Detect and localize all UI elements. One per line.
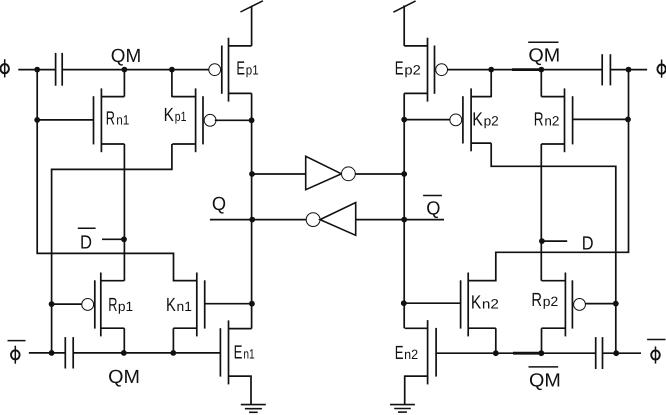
junction Kn1 gate on Q rail <box>249 301 255 307</box>
wire Kp2 source path down-right to right coupling rail <box>491 143 616 353</box>
wire Kp2 drain riser <box>490 70 492 98</box>
wire Rn2 source rail down to Rp2 drain <box>540 144 542 281</box>
junction U2 output on Q rail <box>249 217 255 223</box>
capacitor (bottom right, on phi-bar line) <box>596 337 603 369</box>
node Q-bar <box>423 196 442 220</box>
label Kp1 <box>164 105 187 126</box>
transistor Ep1 (PMOS, top) <box>209 38 252 102</box>
label Rn2 <box>534 110 560 131</box>
node phi-bar (clock input, bottom left) <box>8 341 26 364</box>
node QM (top left) <box>122 67 128 73</box>
wire En2 gate to capacitor C-right-bottom <box>436 352 596 354</box>
transistor Kp1 (PMOS) <box>172 88 216 152</box>
wire U1 output to Q-bar rail <box>355 173 404 175</box>
junction Rp2 source on phi-bar line <box>538 350 544 356</box>
svg-text:QM: QM <box>529 371 561 392</box>
wire D-bar stub <box>102 238 124 240</box>
junction on phi line (left rail tap) <box>34 67 40 73</box>
wire capacitor to phi-bar (right) <box>603 352 642 354</box>
wire Rn1 source rail down to Rp1 drain <box>123 144 125 281</box>
junction Kn1 source on phi-bar line <box>170 350 176 356</box>
label D <box>582 233 594 254</box>
label QM-bar (top right) <box>528 42 560 66</box>
wire Kp1 drain riser <box>171 70 173 98</box>
label Kn1 <box>166 295 192 316</box>
transistor Ep2 (PMOS, top) <box>404 38 447 102</box>
svg-text:E: E <box>236 58 245 79</box>
label Ep2 <box>395 59 421 80</box>
wire U2 input from Q-bar rail <box>356 219 444 221</box>
svg-text:R: R <box>534 110 544 131</box>
wire D stub <box>542 240 567 242</box>
wire Kp1 gate to Q rail <box>215 119 252 121</box>
junction Rn1 gate tap on phi rail <box>34 117 40 123</box>
Q rail (Ep1 drain down to En1 drain) <box>251 93 253 328</box>
junction Kp1 drain tap <box>169 67 175 73</box>
wire Q to inverter U1 input <box>252 173 306 175</box>
label QM (bottom left) <box>108 367 140 388</box>
wire Kn2 source drop to phi-bar line <box>495 328 497 353</box>
svg-text:p2: p2 <box>543 294 558 309</box>
ground (right) <box>390 405 415 413</box>
svg-text:E: E <box>395 343 404 364</box>
svg-text:E: E <box>395 59 404 80</box>
junction Rn2 gate tap on phi rail <box>625 117 631 123</box>
wire Rp2 gate to right coupling rail <box>586 303 616 305</box>
node phi (clock input, top right) <box>657 60 665 78</box>
svg-text:n2: n2 <box>404 347 418 362</box>
svg-text:QM: QM <box>528 46 560 67</box>
wire QM node down to Rn1 drain <box>123 70 125 97</box>
transistor Kn1 (NMOS) <box>173 273 204 337</box>
label Rn1 <box>106 109 130 130</box>
transistor En1 (NMOS, bottom) <box>220 320 251 384</box>
svg-text:K: K <box>164 105 174 126</box>
svg-text:R: R <box>106 109 115 130</box>
label Rp1 <box>108 295 133 316</box>
junction Kn2 gate on Q-bar rail <box>401 300 407 306</box>
svg-text:p1: p1 <box>175 109 187 124</box>
transistor Rn1 (NMOS) <box>94 88 125 152</box>
junction coupling rail on phi-bar line <box>49 350 55 356</box>
svg-text:p2: p2 <box>484 114 499 129</box>
wire Q stub under label to U2 output bubble <box>210 219 306 221</box>
junction right phi rail tap <box>626 67 632 73</box>
wire Ep2 bubble to capacitor C-right-top <box>447 69 602 71</box>
transistor Kn2 (NMOS) <box>461 273 496 337</box>
junction right coupling rail on phi-bar line <box>613 350 619 356</box>
wire capacitor to En1 gate <box>73 352 220 354</box>
wire Kn2 gate from Q-bar rail <box>404 302 460 304</box>
node phi-bar (clock input, bottom right) <box>647 340 665 364</box>
wire En1 source to ground <box>229 376 252 404</box>
junction Rp2 gate on coupling rail <box>613 301 619 307</box>
power supply (VDD) for Ep2 <box>393 1 415 46</box>
junction U2 input on Q-bar rail <box>401 217 407 223</box>
thick segment on top-right wire <box>512 68 543 71</box>
transistor Kp2 (PMOS) <box>450 88 491 151</box>
inverter U1 (Q to Q-bar) <box>306 156 356 189</box>
node D input <box>539 238 545 244</box>
wire Kp1 source path down-left to left coupling rail <box>52 144 172 353</box>
svg-text:D: D <box>582 233 594 254</box>
wire capacitor to Ep1 gate bubble <box>62 69 208 71</box>
label Rp2 <box>531 290 558 311</box>
svg-text:n1: n1 <box>177 299 192 314</box>
wire phi rail down to Kn1 drain <box>37 70 197 281</box>
ground (left) <box>241 405 266 413</box>
label QM-bar (bottom right) <box>529 367 561 392</box>
svg-text:QM: QM <box>111 46 141 67</box>
thick segment on bottom-right wire <box>513 352 540 355</box>
junction U1 output on Q-bar rail <box>401 171 407 177</box>
capacitor (top right, on phi line) <box>602 54 610 85</box>
junction Kp2 drain tap <box>488 67 494 73</box>
svg-text:E: E <box>234 343 243 364</box>
svg-text:Q: Q <box>212 194 226 215</box>
junction Rp1 source on phi-bar line <box>121 350 127 356</box>
label Kn2 <box>471 292 499 313</box>
wire capacitor to phi (right) <box>610 69 647 71</box>
power supply (VDD) for Ep1 <box>240 1 263 46</box>
transistor En2 (NMOS, bottom) <box>405 320 436 384</box>
label QM (top left) <box>111 46 141 67</box>
wire Kp2 gate from Q-bar rail <box>404 119 450 121</box>
wire Rp1 gate <box>52 303 82 305</box>
junction Kp1 gate on Q rail <box>249 117 255 123</box>
wire Rn1 gate <box>37 119 93 121</box>
transistor Rp1 (PMOS) <box>82 273 125 337</box>
wire phi-bar to capacitor C-left-bottom <box>29 352 65 354</box>
wire Rp2 source drop to phi-bar line <box>541 328 543 353</box>
label En1 <box>234 343 255 364</box>
node D-bar input <box>121 236 127 242</box>
transistor Rp2 (PMOS) <box>542 273 586 337</box>
svg-text:p1: p1 <box>246 62 259 77</box>
wire Kn1 gate to Q rail <box>205 303 252 305</box>
svg-text:n1: n1 <box>116 113 129 128</box>
svg-text:R: R <box>108 295 117 316</box>
wire En2 source to ground <box>405 376 428 404</box>
Q-bar rail (Ep2 drain down to En2 drain) <box>403 93 405 328</box>
svg-text:n1: n1 <box>243 347 254 362</box>
wire phi rail (right) down to Kn2 drain <box>468 70 628 281</box>
label Kp2 <box>472 110 499 131</box>
wire QM-bar node down to Rn2 drain <box>540 70 542 97</box>
svg-text:K: K <box>471 292 482 313</box>
wire Kn1 source drop to phi-bar line <box>172 328 174 353</box>
junction Kp2 gate on Q-bar rail <box>401 117 407 123</box>
svg-text:QM: QM <box>108 367 140 388</box>
svg-text:n2: n2 <box>482 296 499 311</box>
label En2 <box>395 343 418 364</box>
wire top-left: phi to capacitor C-left-top <box>18 69 55 71</box>
svg-text:n2: n2 <box>544 114 559 129</box>
node QM-bar (top right) <box>538 67 544 73</box>
wire Rn2 gate <box>573 118 628 120</box>
inverter U2 (Q-bar to Q) <box>306 203 356 236</box>
svg-text:p2: p2 <box>404 63 420 78</box>
transistor Rn2 (NMOS) <box>541 88 572 152</box>
capacitor (top left, on phi line) <box>56 53 63 86</box>
label Q <box>212 194 226 215</box>
junction Rp1 gate on coupling rail <box>49 301 55 307</box>
label D-bar <box>78 228 96 253</box>
label Ep1 <box>236 58 258 79</box>
wire Rp1 source drop to phi-bar line <box>123 328 125 353</box>
svg-text:R: R <box>531 290 542 311</box>
capacitor (bottom left, on phi-bar line) <box>65 337 73 368</box>
svg-text:Q: Q <box>426 199 440 220</box>
svg-text:p1: p1 <box>118 299 133 314</box>
svg-text:D: D <box>80 232 92 253</box>
node Q <box>249 171 255 177</box>
svg-text:K: K <box>166 295 176 316</box>
node phi (clock input, top left) <box>1 59 9 77</box>
junction Kn2 source on phi-bar line <box>493 350 499 356</box>
svg-text:K: K <box>472 110 483 131</box>
